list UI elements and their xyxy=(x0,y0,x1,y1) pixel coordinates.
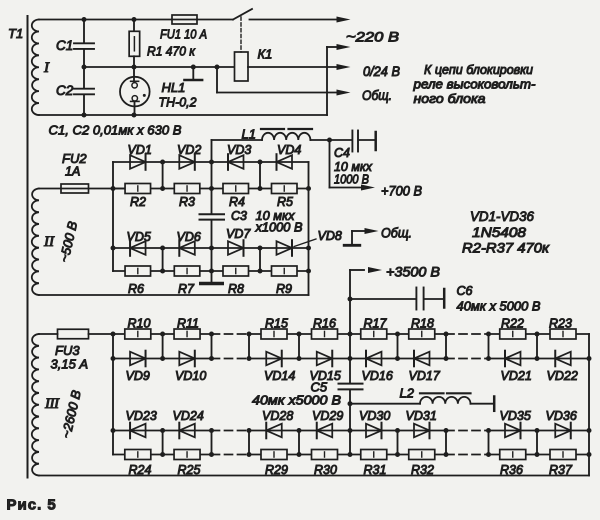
svg-text:C1: C1 xyxy=(56,38,73,53)
svg-text:VD31: VD31 xyxy=(406,409,437,423)
svg-text:R6: R6 xyxy=(128,282,144,296)
svg-text:R16: R16 xyxy=(313,317,336,331)
svg-text:VD4: VD4 xyxy=(277,143,301,157)
svg-text:VD2: VD2 xyxy=(177,143,201,157)
svg-text:1000 В: 1000 В xyxy=(334,173,369,187)
svg-text:R36: R36 xyxy=(500,463,523,477)
svg-text:R15: R15 xyxy=(265,317,288,331)
svg-text:VD16: VD16 xyxy=(362,369,393,383)
svg-text:0/24 В: 0/24 В xyxy=(363,64,400,79)
svg-text:R4: R4 xyxy=(229,195,245,209)
svg-text:х1000 В: х1000 В xyxy=(254,221,302,235)
svg-text:3,15 А: 3,15 А xyxy=(51,357,89,372)
svg-text:VD28: VD28 xyxy=(262,409,293,423)
svg-text:~220 В: ~220 В xyxy=(346,29,399,45)
svg-text:I: I xyxy=(43,60,50,76)
svg-text:VD22: VD22 xyxy=(547,369,578,383)
svg-text:L2: L2 xyxy=(400,386,415,401)
svg-text:40мк х5000 В: 40мк х5000 В xyxy=(252,394,341,408)
svg-text:VD3: VD3 xyxy=(227,143,251,157)
svg-text:C6: C6 xyxy=(457,284,473,298)
svg-text:R3: R3 xyxy=(179,195,195,209)
svg-text:VD7: VD7 xyxy=(226,227,251,241)
svg-text:~500 В: ~500 В xyxy=(56,219,80,263)
svg-text:К1: К1 xyxy=(258,47,273,62)
svg-text:VD23: VD23 xyxy=(126,409,157,423)
svg-text:40мк х 5000 В: 40мк х 5000 В xyxy=(457,300,541,314)
svg-text:R2: R2 xyxy=(130,195,146,209)
svg-text:VD6: VD6 xyxy=(177,230,201,244)
svg-text:R17: R17 xyxy=(364,317,388,331)
svg-text:VD24: VD24 xyxy=(173,409,204,423)
svg-text:R1 470 к: R1 470 к xyxy=(147,44,196,59)
svg-text:T1: T1 xyxy=(8,26,23,41)
svg-text:VD30: VD30 xyxy=(359,409,390,423)
svg-text:R24: R24 xyxy=(129,463,152,477)
svg-text:III: III xyxy=(44,396,60,412)
svg-text:R23: R23 xyxy=(549,317,572,331)
svg-text:VD8: VD8 xyxy=(318,229,342,243)
svg-text:R29: R29 xyxy=(265,463,288,477)
svg-text:VD36: VD36 xyxy=(546,409,577,423)
svg-text:C1, C2 0,01мк х 630 В: C1, C2 0,01мк х 630 В xyxy=(49,123,182,138)
svg-text:R5: R5 xyxy=(277,195,293,209)
svg-text:1А: 1А xyxy=(65,165,80,179)
svg-text:VD1: VD1 xyxy=(128,143,152,157)
svg-text:R32: R32 xyxy=(411,463,434,477)
svg-text:R37: R37 xyxy=(549,463,573,477)
svg-text:R9: R9 xyxy=(276,282,292,296)
svg-text:R25: R25 xyxy=(178,463,201,477)
svg-text:+700 В: +700 В xyxy=(381,184,422,199)
svg-text:+3500 В: +3500 В xyxy=(386,265,440,280)
svg-text:R7: R7 xyxy=(178,282,195,296)
svg-text:VD21: VD21 xyxy=(501,369,532,383)
svg-text:Общ.: Общ. xyxy=(362,88,392,103)
svg-text:L1: L1 xyxy=(242,127,256,142)
svg-text:C3: C3 xyxy=(231,209,247,223)
svg-text:ТН-0,2: ТН-0,2 xyxy=(159,95,198,110)
svg-text:R30: R30 xyxy=(314,463,337,477)
svg-text:C2: C2 xyxy=(56,83,74,98)
svg-text:R10: R10 xyxy=(128,317,151,331)
svg-text:II: II xyxy=(43,234,55,250)
svg-text:~2600 В: ~2600 В xyxy=(58,388,84,439)
svg-text:FU1 10 А: FU1 10 А xyxy=(160,27,207,42)
svg-text:R18: R18 xyxy=(411,317,434,331)
svg-text:Рис. 5: Рис. 5 xyxy=(7,497,57,514)
svg-text:VD17: VD17 xyxy=(409,369,441,383)
svg-text:R2-R37 470к: R2-R37 470к xyxy=(462,241,550,256)
svg-text:C5: C5 xyxy=(311,380,328,395)
svg-text:VD9: VD9 xyxy=(126,369,150,383)
svg-text:VD5: VD5 xyxy=(127,230,151,244)
svg-text:К цепи блокировки: К цепи блокировки xyxy=(424,63,533,77)
svg-text:R22: R22 xyxy=(501,317,524,331)
svg-text:R31: R31 xyxy=(364,463,387,477)
svg-text:VD10: VD10 xyxy=(175,369,206,383)
svg-text:R11: R11 xyxy=(177,317,199,331)
svg-text:ного блока: ного блока xyxy=(414,92,486,106)
svg-text:VD29: VD29 xyxy=(312,409,343,423)
svg-text:VD35: VD35 xyxy=(500,409,531,423)
svg-text:1N5408: 1N5408 xyxy=(472,225,527,240)
svg-text:VD14: VD14 xyxy=(264,369,295,383)
svg-text:VD1-VD36: VD1-VD36 xyxy=(470,209,534,224)
svg-text:C4: C4 xyxy=(334,146,350,160)
svg-text:реле высоковольт-: реле высоковольт- xyxy=(412,78,535,92)
svg-text:R8: R8 xyxy=(228,282,244,296)
svg-text:HL1: HL1 xyxy=(162,80,186,95)
svg-text:Общ.: Общ. xyxy=(381,226,412,241)
